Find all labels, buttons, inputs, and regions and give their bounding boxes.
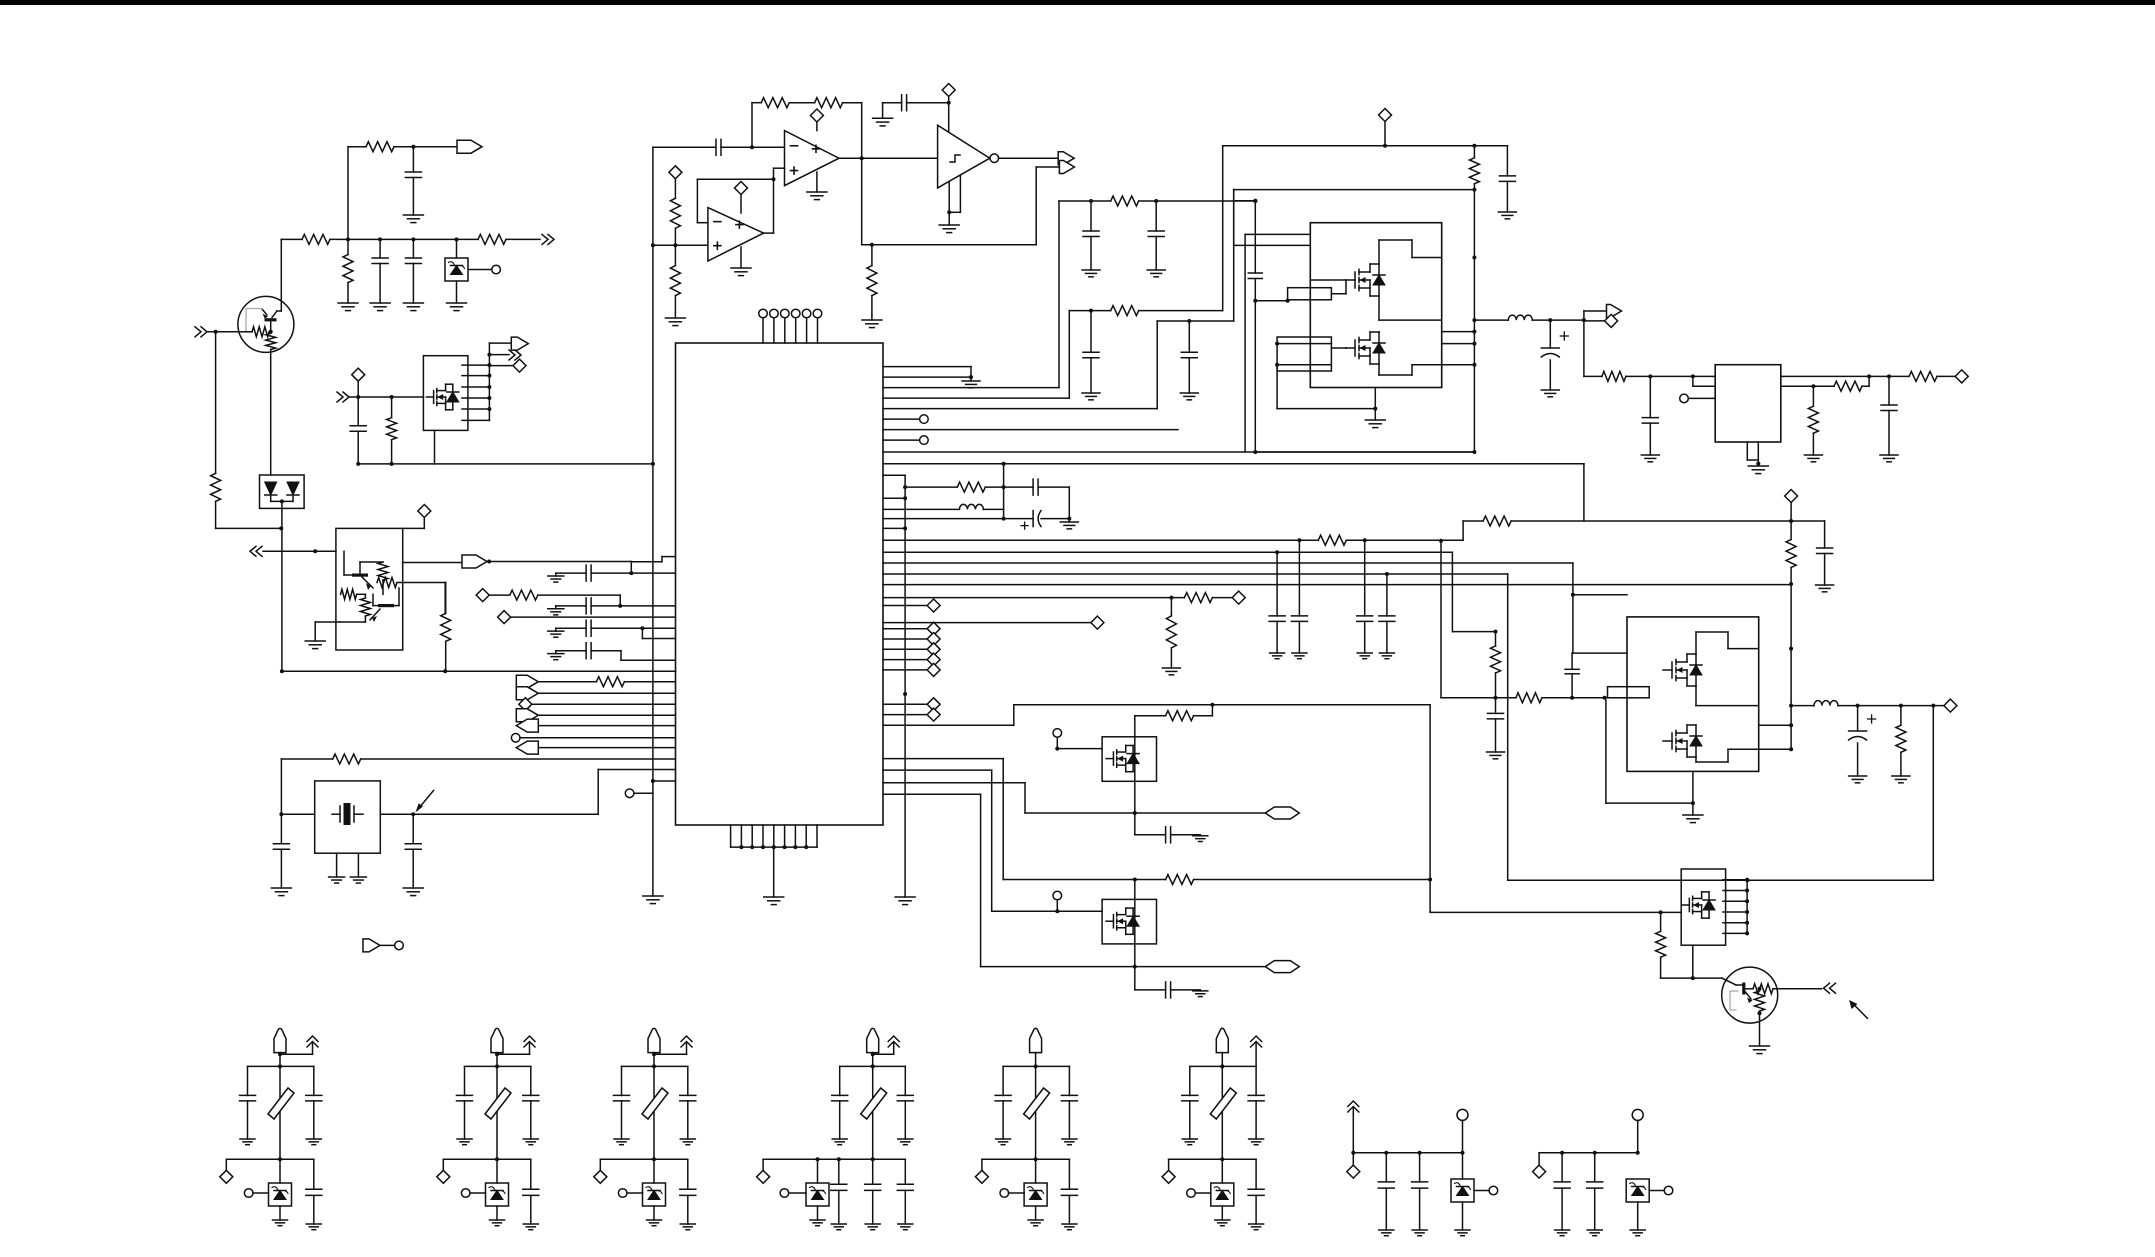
zener box — [817, 1159, 819, 1183]
resistor — [1135, 715, 1166, 717]
resistor R36 — [1602, 371, 1626, 381]
cap C33 — [1386, 574, 1388, 616]
module bottom — [1692, 771, 1694, 803]
regulator U7 box — [1715, 365, 1781, 442]
connector << — [1824, 983, 1836, 993]
pin 398 RC2 — [883, 397, 1069, 399]
wire — [843, 102, 862, 104]
top rail — [1003, 1065, 1069, 1067]
annotation arrow — [418, 790, 434, 809]
ground — [1357, 652, 1372, 654]
cap C16 — [1188, 321, 1190, 352]
bottom rail — [495, 1157, 499, 1161]
resistor R29 — [1516, 693, 1542, 703]
cap C25 polarized — [1857, 706, 1859, 731]
circle en — [1680, 394, 1689, 403]
circle conn — [1187, 1189, 1196, 1198]
pin 518 polarized cap — [883, 518, 1033, 520]
cap C24 — [1495, 698, 1497, 714]
zener box — [1221, 1159, 1223, 1183]
cell bullet 654 — [648, 1028, 660, 1052]
diamond — [225, 1159, 227, 1170]
diamond — [352, 368, 365, 381]
top rail — [248, 1065, 314, 1067]
ground — [1249, 1223, 1264, 1225]
ground — [740, 247, 742, 268]
pin 475 bus — [883, 474, 905, 476]
wire long to IC — [282, 670, 676, 672]
wire — [348, 146, 366, 148]
pin 509 coil — [883, 508, 959, 510]
diamond phase — [1584, 320, 1605, 322]
crystal gnd stubs — [336, 853, 338, 877]
pin 429 — [883, 429, 1178, 431]
pin 408 staircase — [883, 408, 1157, 410]
resistor R22 — [957, 482, 985, 492]
resistor R5 — [211, 473, 221, 501]
cell bullet 1035.6 — [1030, 1028, 1042, 1052]
pin 725 to cell1 — [883, 724, 1014, 726]
inductor L3 — [1814, 701, 1838, 706]
MOSFET M3 — [1346, 347, 1355, 349]
ground — [1892, 775, 1910, 777]
circle top — [1632, 1109, 1643, 1120]
pin 498 bus — [883, 497, 905, 499]
diamond — [1168, 1159, 1170, 1170]
transistor Q1 — [238, 296, 294, 352]
ground — [523, 1223, 538, 1225]
cap out — [313, 1159, 315, 1189]
circle gate conn — [1053, 729, 1062, 738]
ferrite bead — [1210, 1088, 1236, 1119]
wire staircase to IC — [597, 770, 599, 815]
ground — [370, 302, 390, 304]
cap C6 vcc — [883, 102, 902, 104]
resistor R34 — [1812, 386, 1814, 406]
resistor R14 — [670, 198, 680, 228]
pin ladder right — [1746, 880, 1748, 935]
resistor R9 — [360, 598, 370, 616]
wire down right — [1583, 464, 1585, 466]
pin 540 long — [883, 539, 1318, 541]
feedback U2 — [764, 232, 774, 234]
resistor R6 — [378, 562, 388, 580]
cap left — [1189, 1066, 1191, 1095]
top rail — [1190, 1065, 1256, 1067]
up arrow — [1255, 1042, 1257, 1066]
ground — [1162, 667, 1180, 669]
resistor R8 — [341, 589, 357, 599]
pin row out1 bend — [630, 562, 632, 574]
ferrite bead — [485, 1088, 511, 1119]
resistor R28 — [1494, 630, 1498, 634]
ground — [490, 1219, 505, 1221]
resistor R15 — [670, 266, 680, 296]
input cap C28 — [1649, 417, 1651, 419]
zener D1 box — [456, 239, 458, 258]
ground — [403, 302, 423, 304]
pin 574 long — [883, 573, 1508, 575]
diamond vcc2 — [1785, 490, 1798, 503]
pin 622 diamond — [883, 622, 1091, 624]
ground — [647, 1219, 662, 1221]
ground top-right — [871, 314, 873, 316]
ground — [1180, 392, 1198, 394]
diamond — [442, 1159, 444, 1170]
wire — [403, 562, 462, 564]
step wire — [641, 628, 643, 638]
ground — [1270, 652, 1285, 654]
cap out — [1068, 1159, 1070, 1189]
cell bullet 280 — [274, 1028, 286, 1052]
wire — [752, 146, 785, 148]
resistor R23 — [1483, 516, 1511, 526]
cap — [1419, 1153, 1421, 1182]
pin 563 long — [883, 562, 1573, 564]
emitter resistor — [1730, 991, 1738, 1010]
ground — [1215, 1219, 1230, 1221]
diamond out — [1955, 370, 1968, 383]
ground — [1082, 269, 1100, 271]
ground — [457, 1138, 472, 1140]
resistor R2 — [302, 234, 330, 244]
circle conn — [244, 1189, 253, 1198]
cap C17 — [1032, 479, 1034, 495]
ground — [240, 1138, 255, 1140]
gate ladder lower — [1277, 337, 1331, 371]
vertical — [1134, 716, 1136, 835]
diamond vbat — [1379, 109, 1392, 122]
ground — [271, 887, 291, 889]
ferrite bead — [268, 1088, 294, 1119]
cap out — [530, 1159, 532, 1189]
fb wire — [1781, 385, 1814, 387]
feedback wire — [751, 103, 753, 148]
module bottom gnd — [1374, 388, 1376, 409]
diamond vcc — [735, 182, 748, 195]
node rail1 — [281, 238, 302, 240]
ground — [306, 1138, 321, 1140]
connector >> input — [195, 327, 207, 337]
ground — [306, 1223, 321, 1225]
zener box — [1035, 1159, 1037, 1183]
cap C15 — [1090, 311, 1092, 353]
connector >> — [489, 354, 509, 356]
capacitor C5 — [715, 139, 717, 155]
ground — [1880, 454, 1898, 456]
cell bullet 1222.3 — [1216, 1028, 1228, 1052]
circle row 737 — [511, 734, 520, 743]
diamond — [489, 365, 513, 367]
wire — [216, 527, 282, 529]
cap right — [1068, 1066, 1070, 1095]
cap — [1135, 989, 1166, 991]
wire — [270, 349, 272, 475]
ground — [832, 1138, 847, 1140]
input wire — [1583, 321, 1585, 377]
wire — [358, 463, 434, 465]
pin 794 cell2 out — [883, 793, 981, 795]
transistor Q2 — [352, 574, 368, 577]
connector OUT row 693 — [516, 687, 538, 700]
diamond pins right — [883, 605, 927, 607]
wire row 759 + resistor R19 — [281, 758, 332, 760]
caps bottom — [838, 1159, 840, 1184]
RC2 wire — [1069, 310, 1110, 312]
pin row 781 — [653, 780, 676, 782]
ground — [305, 640, 325, 642]
pin ladder — [488, 343, 490, 420]
pin 597 resistor diamond — [883, 597, 1184, 599]
cap left — [247, 1066, 249, 1095]
ground — [1060, 521, 1078, 523]
resistor R10 — [445, 583, 447, 614]
gate wire 697 — [1440, 541, 1442, 698]
ground — [447, 302, 467, 304]
MOSFET M2 — [1346, 279, 1355, 281]
cap C31 — [1298, 540, 1300, 616]
connector << — [250, 546, 262, 556]
cap C20 — [1506, 146, 1508, 176]
diamond row2 — [498, 611, 511, 624]
cap C22 polarized — [1549, 320, 1551, 348]
cap C9 — [556, 627, 586, 629]
cap C21 — [1248, 272, 1262, 274]
module inner wires — [1695, 632, 1697, 654]
bottom rail — [278, 1157, 282, 1161]
connector >> — [337, 392, 349, 402]
IC bottom pins — [730, 825, 732, 847]
resistor R31 — [1660, 912, 1662, 931]
up arrow — [529, 1042, 531, 1054]
jog to res — [1462, 521, 1464, 540]
wire to right — [435, 463, 653, 465]
resistor R11 — [391, 397, 393, 418]
ground — [1641, 454, 1659, 456]
IC top NC pins — [762, 318, 764, 344]
connector IN row 747 — [516, 741, 538, 754]
ground — [1748, 465, 1768, 467]
ground — [614, 1138, 629, 1140]
schmitt U3 — [938, 125, 990, 188]
pin 584 long — [883, 584, 1791, 586]
cap C18 — [1824, 521, 1826, 548]
regulator gnd — [1746, 442, 1748, 460]
ground — [1028, 1219, 1043, 1221]
ground — [810, 1219, 825, 1221]
wire 453 — [1255, 451, 1474, 453]
pin 366 gnd — [883, 366, 971, 368]
inductor L1 — [959, 504, 983, 509]
cap C19 polarized — [1032, 511, 1034, 527]
cap C26 input — [1650, 375, 1652, 377]
circle conn — [1000, 1189, 1009, 1198]
bottom rail — [1220, 1157, 1224, 1161]
dual diode D2 box — [260, 475, 305, 508]
diamond — [599, 1159, 601, 1170]
diamond phase2 — [1944, 699, 1957, 712]
zener box — [1626, 1179, 1649, 1202]
cap — [1594, 1153, 1596, 1182]
resistor R24 — [1790, 521, 1792, 540]
cap C14 — [1155, 201, 1157, 231]
resistor R12 — [761, 98, 789, 108]
ground — [665, 317, 685, 319]
pin 487 res — [905, 486, 957, 488]
pin 452 — [883, 451, 1474, 453]
vertical — [1134, 880, 1136, 990]
cap left — [839, 1066, 841, 1095]
capacitor C2 — [379, 239, 381, 258]
cap out — [687, 1159, 689, 1189]
cell bullet 497 — [491, 1028, 503, 1052]
cap C8 — [556, 605, 586, 607]
circle conn — [625, 789, 634, 798]
ground — [1082, 392, 1100, 394]
up arrow — [893, 1042, 895, 1054]
cap left — [621, 1066, 623, 1095]
annotation arrow 2 — [1852, 1003, 1867, 1018]
IC U4 body — [676, 343, 884, 825]
top wire 145 — [1223, 145, 1508, 147]
wire input — [653, 146, 716, 148]
diamond row 704 — [519, 698, 532, 711]
output node — [860, 156, 864, 160]
ground — [680, 1223, 695, 1225]
wire long 671 — [444, 583, 446, 614]
resistor R1 — [366, 142, 394, 152]
output connector — [1135, 966, 1266, 968]
zener box — [653, 1159, 655, 1183]
gate ladder upper — [1288, 288, 1332, 300]
resistor R35 — [1318, 535, 1346, 545]
wire down — [861, 158, 863, 245]
ground — [764, 896, 784, 898]
ground — [403, 887, 423, 889]
ground — [643, 895, 663, 897]
zener box — [279, 1159, 281, 1183]
resistor R13 — [815, 98, 843, 108]
wire +in — [774, 167, 785, 169]
simple cell B — [1539, 1152, 1638, 1154]
wire — [789, 102, 814, 104]
connector IN row 725 — [516, 719, 538, 732]
inductor L2 — [1508, 315, 1532, 320]
module right wires — [1442, 331, 1475, 333]
cap C11 — [280, 814, 282, 844]
resistor R3 — [478, 234, 506, 244]
connector OUT row 715 — [516, 709, 538, 722]
ground — [338, 302, 358, 304]
wire — [1036, 166, 1059, 168]
ground — [1182, 1138, 1197, 1140]
connector OUT — [511, 337, 528, 350]
connector probe — [363, 939, 380, 952]
up arrow — [312, 1042, 314, 1054]
capacitor C4 — [357, 397, 359, 426]
ground — [895, 896, 915, 898]
resistor R26 — [1170, 598, 1172, 616]
ground — [523, 1138, 538, 1140]
diamond conn — [403, 527, 425, 529]
connector OUT — [1058, 152, 1074, 165]
ground — [1062, 1223, 1077, 1225]
cap C29 — [1649, 376, 1651, 417]
ferrite bead — [1024, 1088, 1050, 1119]
resistor R30 — [1900, 706, 1902, 726]
op-amp U1 — [785, 131, 840, 186]
cap right — [687, 1066, 689, 1095]
ground — [1683, 814, 1703, 816]
wire +in U2 — [675, 244, 708, 246]
wire 189 — [1233, 190, 1235, 246]
cap left — [464, 1066, 466, 1095]
module wires inner — [1378, 240, 1380, 264]
pin 758 to cell2 — [883, 758, 1003, 760]
circle top — [1457, 1109, 1468, 1120]
capacitor C1 — [412, 147, 414, 172]
ground — [1849, 775, 1867, 777]
crystal left node — [279, 812, 283, 816]
ground — [873, 117, 893, 119]
pin 552 long — [883, 551, 1452, 553]
module U5 box — [1310, 223, 1441, 388]
ground — [403, 214, 423, 216]
resistor R25 — [1184, 593, 1212, 603]
circle conn — [461, 1189, 470, 1198]
ground — [1292, 652, 1307, 654]
circle conn — [1474, 1190, 1489, 1192]
ground — [1816, 584, 1834, 586]
cap C7 — [556, 572, 586, 574]
wire 978 — [1661, 977, 1722, 979]
cap C30 — [1276, 552, 1278, 616]
ground — [273, 1219, 288, 1221]
cap right — [530, 1066, 532, 1095]
resistor R32 — [1909, 371, 1937, 381]
pin 387 RC — [883, 387, 1059, 389]
ground — [816, 172, 818, 192]
vertical 463 to 521 — [1583, 463, 1585, 465]
gate ladder lower module — [1608, 687, 1650, 698]
pin 770 gate2 — [883, 769, 992, 771]
wire — [215, 332, 217, 474]
module U6 box — [1627, 617, 1759, 772]
cap C10 — [556, 650, 586, 652]
ground — [1249, 1138, 1264, 1140]
ferrite bead — [861, 1088, 887, 1119]
cap — [1135, 834, 1166, 836]
pin 377 — [883, 376, 971, 378]
cap right — [1255, 1066, 1257, 1095]
cap C13 — [1090, 201, 1092, 231]
simple cell A — [1352, 1107, 1354, 1153]
connector OUT row 681 — [516, 675, 538, 688]
top black bar — [0, 0, 2155, 5]
pin 419 nc — [883, 418, 919, 420]
connector >> — [542, 234, 554, 244]
circle conn — [1649, 1190, 1664, 1192]
ground — [1487, 751, 1505, 753]
wire — [281, 508, 283, 671]
transistor box Q2/Q3 — [336, 528, 403, 650]
ground — [1498, 211, 1516, 213]
cap C27 — [1888, 376, 1890, 405]
top rail — [622, 1065, 688, 1067]
phase2 wire — [1791, 705, 1814, 707]
pin 440 nc — [883, 439, 919, 441]
cap — [1561, 1153, 1563, 1182]
